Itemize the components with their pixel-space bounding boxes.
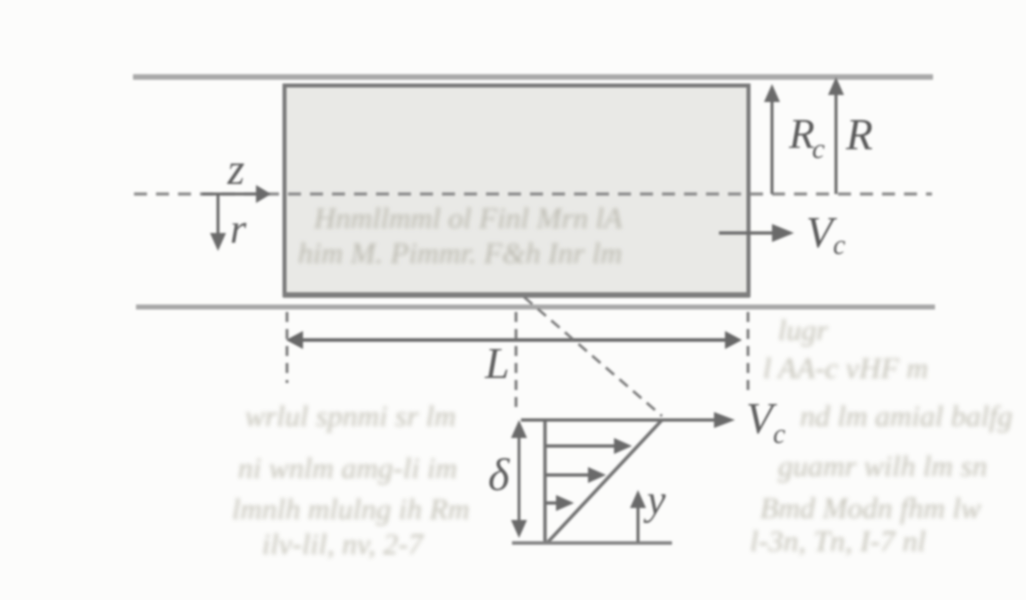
svg-text:L: L xyxy=(484,339,509,388)
delta dimension arrow xyxy=(518,424,521,534)
svg-text:c: c xyxy=(812,133,825,165)
svg-text:him M. Pimmr. F&h Inr lm: him M. Pimmr. F&h Inr lm xyxy=(298,237,622,270)
profile velocity arrow 3 xyxy=(546,473,591,476)
z axis arrow xyxy=(202,193,258,196)
profile hypotenuse xyxy=(547,420,662,543)
svg-text:wrlul spnmi sr lm: wrlul spnmi sr lm xyxy=(245,400,456,433)
svg-text:z: z xyxy=(226,145,244,194)
svg-text:ni wnlm amg-li im: ni wnlm amg-li im xyxy=(238,452,457,485)
svg-text:c: c xyxy=(833,230,846,261)
bleed-through text from reverse page xyxy=(232,202,1013,561)
svg-text:l AA-c vHF m: l AA-c vHF m xyxy=(763,352,928,385)
svg-text:c: c xyxy=(773,419,786,450)
profile velocity arrow 4 xyxy=(546,501,559,504)
r axis arrow xyxy=(217,194,220,240)
svg-text:Bmd Modn fhm lw: Bmd Modn fhm lw xyxy=(760,492,981,525)
y axis arrow xyxy=(637,500,640,542)
svg-text:lugr: lugr xyxy=(778,314,828,347)
dashed vertical at profile xyxy=(515,312,518,412)
svg-text:y: y xyxy=(643,478,666,524)
L extension dashed line right xyxy=(747,312,750,396)
profile velocity arrow 2 xyxy=(546,444,617,447)
L dimension arrow xyxy=(293,338,735,342)
svg-text:R: R xyxy=(845,110,873,159)
R dimension arrow xyxy=(835,86,838,194)
profile baseline xyxy=(512,541,672,544)
profile apex Vc arrow xyxy=(521,418,720,421)
svg-text:R: R xyxy=(788,112,815,158)
core region shaded fill xyxy=(285,85,749,295)
svg-text:guamr wilh lm sn: guamr wilh lm sn xyxy=(778,450,987,483)
Rc dimension arrow xyxy=(771,95,774,194)
svg-text:ilv-lil, nv, 2-7: ilv-lil, nv, 2-7 xyxy=(262,528,425,561)
svg-text:nd lm amial balfg: nd lm amial balfg xyxy=(800,400,1013,433)
dashed diagonal to profile apex xyxy=(524,297,662,416)
centerline (dashed axis) xyxy=(134,192,932,195)
profile stem xyxy=(543,420,546,543)
core region border xyxy=(285,86,749,296)
svg-text:r: r xyxy=(230,207,247,253)
svg-text:δ: δ xyxy=(488,449,510,500)
L extension dashed line left xyxy=(286,312,289,383)
bottom pipe wall xyxy=(136,305,935,310)
svg-text:lmnlh mlulng ih Rm: lmnlh mlulng ih Rm xyxy=(232,493,470,526)
top pipe wall xyxy=(133,74,933,80)
svg-text:l-3n, Tn, I-7 nl: l-3n, Tn, I-7 nl xyxy=(750,525,926,558)
Vc core velocity arrow xyxy=(719,231,780,234)
svg-text:Hnmllmml ol Finl Mrn lA: Hnmllmml ol Finl Mrn lA xyxy=(313,202,623,235)
